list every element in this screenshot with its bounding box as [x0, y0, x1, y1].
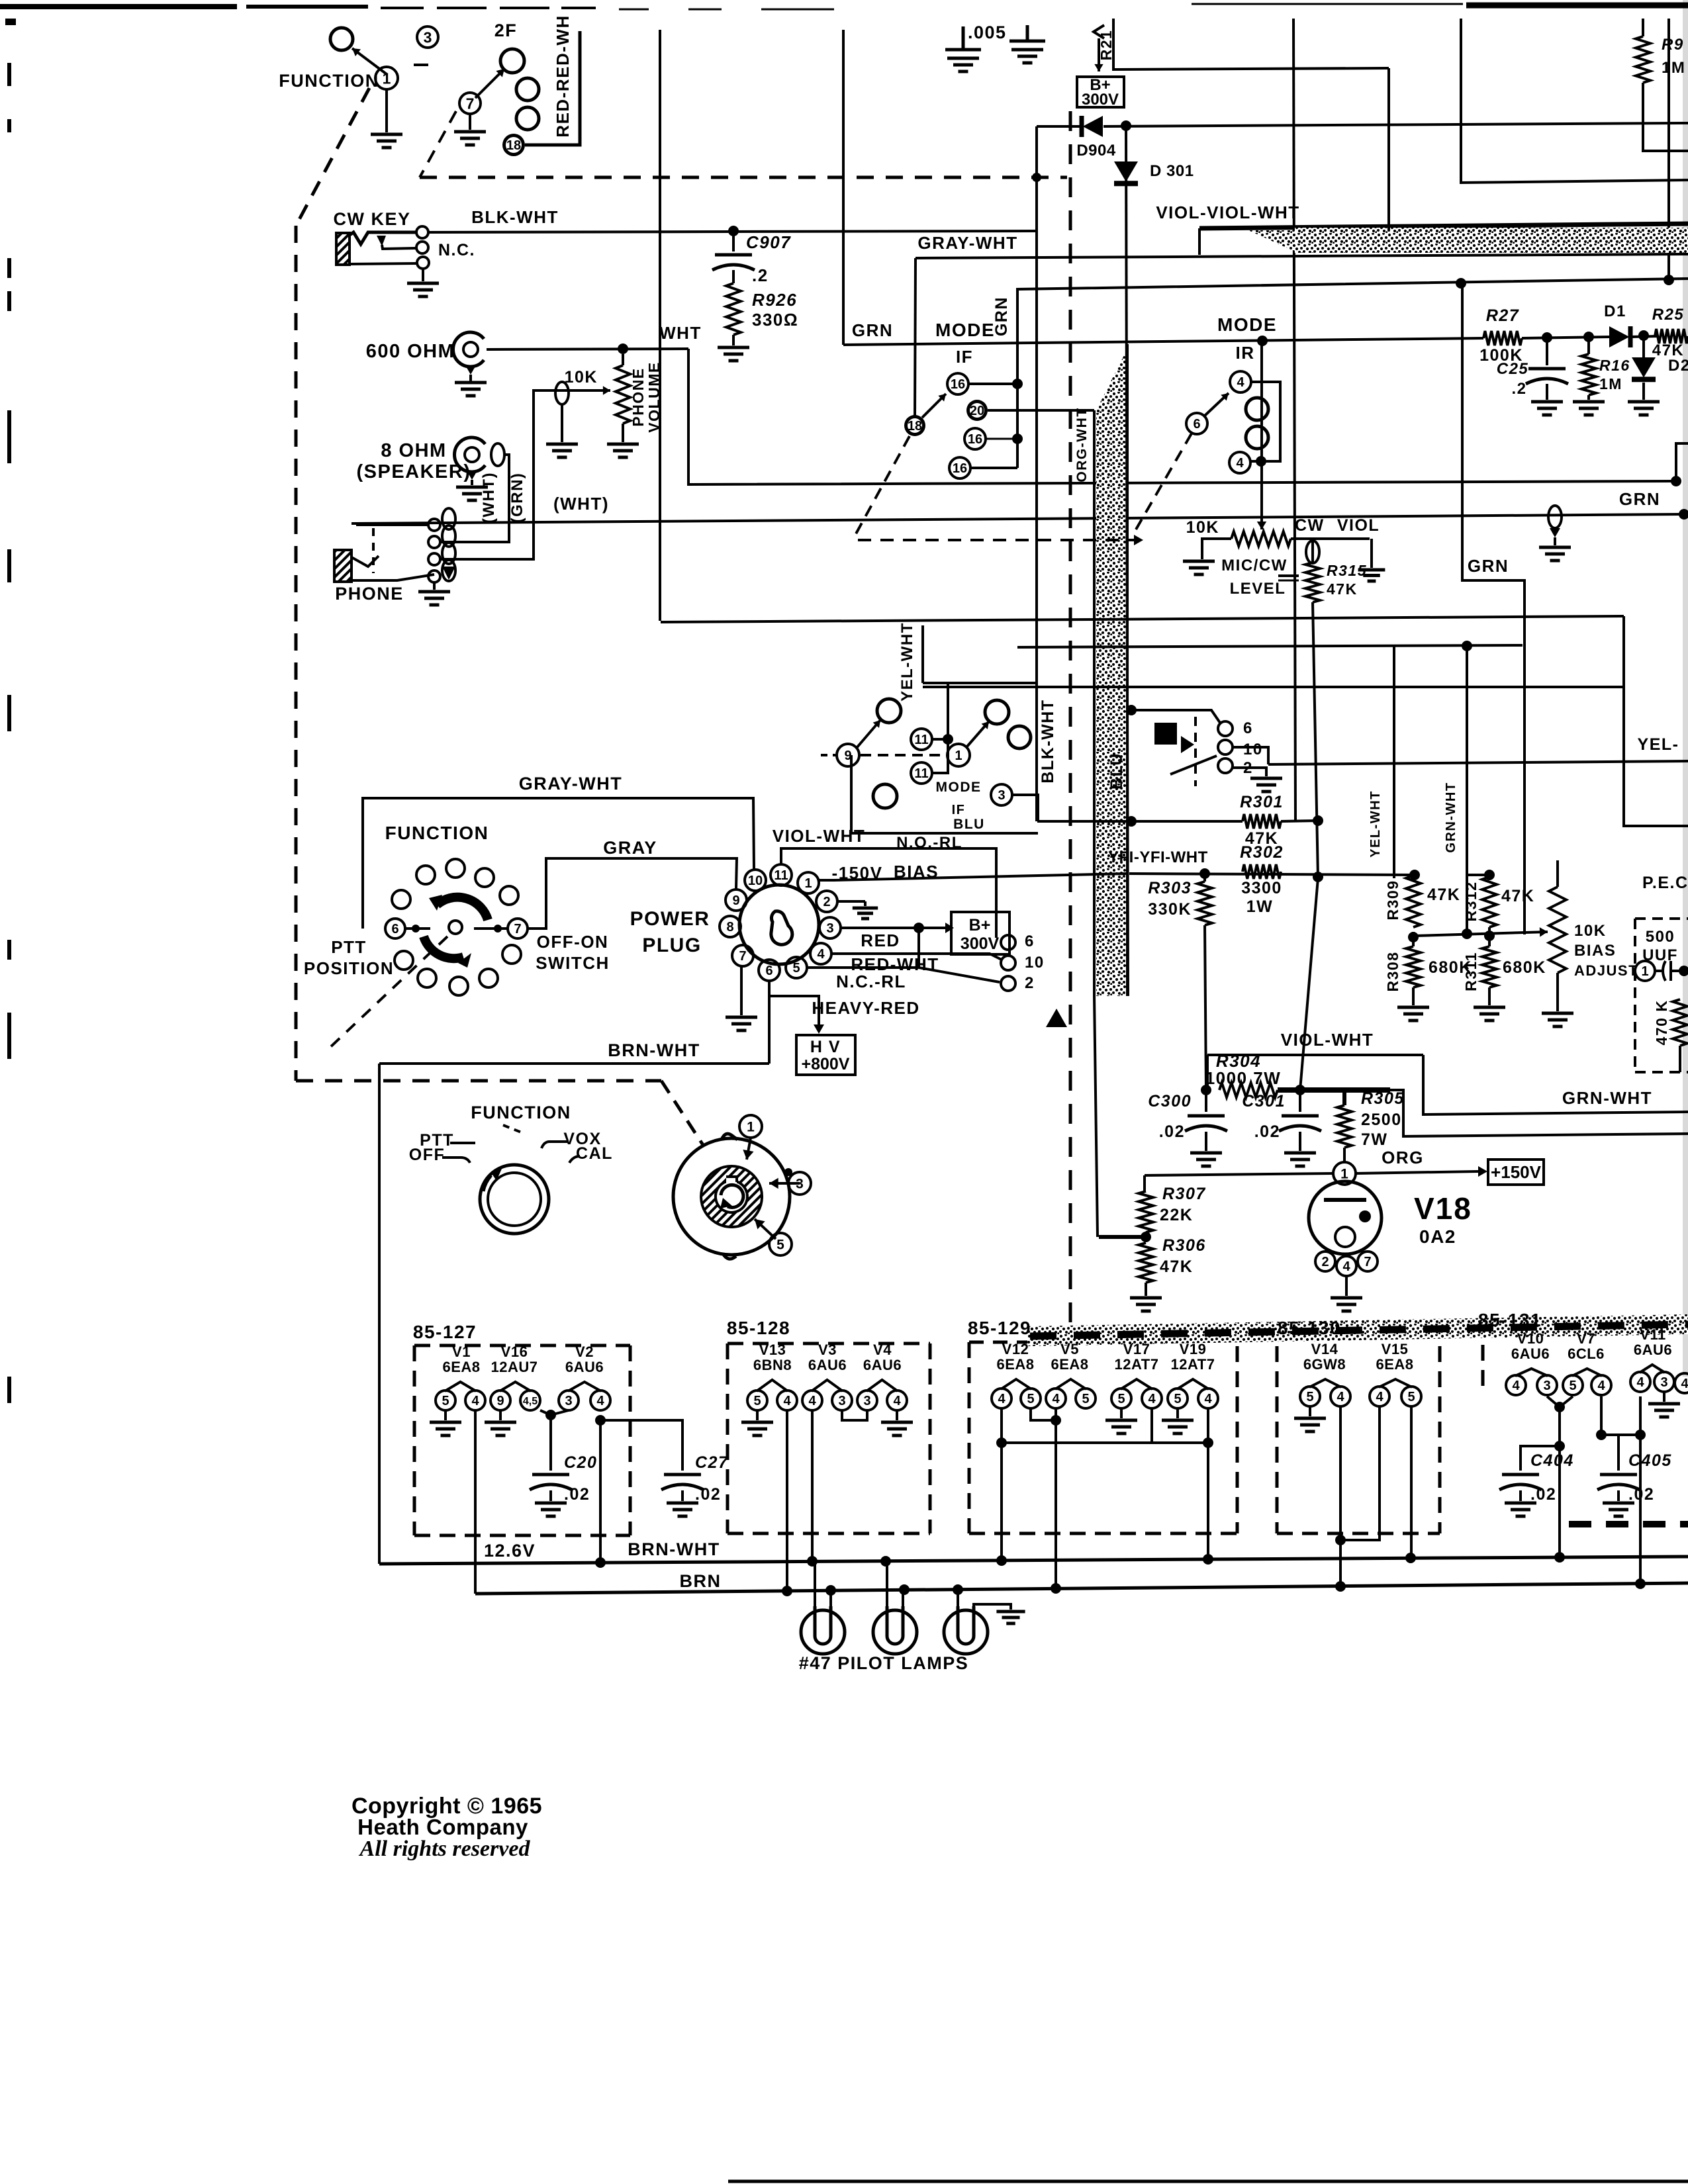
svg-text:N.C.: N.C. — [438, 241, 475, 259]
resistor R308 680K — [1406, 946, 1421, 987]
shaded band bottom — [1027, 1314, 1688, 1346]
dashed callout — [854, 436, 910, 537]
resistor R302 3300 1W — [1243, 864, 1281, 879]
wire — [732, 335, 735, 345]
wire — [350, 263, 416, 264]
feedthrough — [555, 382, 569, 404]
svg-text:47K: 47K — [1327, 580, 1358, 598]
contact 4b — [1229, 452, 1250, 473]
svg-text:16: 16 — [951, 377, 965, 392]
socket pin 4 V3 — [802, 1390, 822, 1410]
ground — [1573, 400, 1605, 404]
svg-text:6EA8: 6EA8 — [1051, 1356, 1088, 1373]
svg-text:4: 4 — [1342, 1259, 1350, 1274]
wire — [1206, 1055, 1209, 1090]
svg-text:4: 4 — [808, 1394, 816, 1408]
wire — [1233, 768, 1266, 776]
svg-text:12AT7: 12AT7 — [1115, 1356, 1159, 1373]
svg-text:BRN-WHT: BRN-WHT — [628, 1539, 720, 1559]
svg-text:V14: V14 — [1311, 1341, 1338, 1357]
resistor R16 1M — [1587, 337, 1590, 354]
svg-text:(GRN): (GRN) — [508, 473, 526, 523]
capacitor C20 — [549, 1415, 552, 1471]
ground — [1183, 560, 1215, 563]
svg-text:YEL-: YEL- — [1638, 735, 1679, 754]
wire — [968, 383, 1017, 385]
capacitor C404 — [1502, 1473, 1539, 1477]
svg-text:5: 5 — [1027, 1392, 1034, 1406]
dashed boundary vertical — [295, 226, 298, 1081]
svg-text:RED: RED — [861, 931, 900, 950]
dashed rail — [1069, 111, 1072, 1328]
svg-text:FUNCTION: FUNCTION — [279, 71, 379, 91]
svg-text:.2: .2 — [1511, 380, 1526, 398]
ground — [1130, 1297, 1162, 1300]
svg-text:3: 3 — [1543, 1379, 1550, 1393]
wire — [356, 523, 428, 526]
ground — [1309, 1406, 1311, 1416]
svg-text:IR: IR — [1236, 343, 1255, 363]
wire — [1461, 19, 1688, 183]
wire — [1667, 19, 1670, 281]
socket pin 4 V15 — [1370, 1387, 1389, 1406]
svg-text:1M: 1M — [1662, 59, 1685, 77]
svg-text:MODE: MODE — [936, 780, 982, 795]
wire BRN bus — [475, 1583, 1688, 1594]
svg-text:VIOL: VIOL — [1337, 516, 1380, 535]
svg-text:SWITCH: SWITCH — [536, 953, 610, 973]
resistor R312 47K — [1484, 870, 1495, 880]
tube V18 pin 1 — [1333, 1162, 1356, 1185]
svg-text:POSITION: POSITION — [304, 958, 394, 978]
wire — [540, 1410, 569, 1415]
svg-text:16: 16 — [953, 461, 967, 476]
wire — [1035, 126, 1038, 821]
svg-text:R9: R9 — [1662, 36, 1684, 54]
relay contact 10 — [1218, 740, 1233, 754]
wire — [1002, 1441, 1208, 1444]
svg-text:CW: CW — [1295, 516, 1325, 535]
resistor 470K — [1673, 999, 1687, 1046]
wire VIOL — [1291, 537, 1370, 540]
plug pin 3 — [820, 917, 841, 938]
svg-text:Heath Company: Heath Company — [357, 1815, 528, 1839]
wire — [1012, 795, 1038, 821]
svg-text:BRN: BRN — [680, 1571, 722, 1591]
svg-text:P.E.C.: P.E.C. — [1642, 874, 1688, 892]
svg-text:VIOL-VIOL-WHT: VIOL-VIOL-WHT — [1156, 203, 1299, 222]
wire — [433, 582, 436, 590]
wire pin 7 ground — [740, 966, 743, 1015]
socket pin 5 V12 — [1021, 1388, 1041, 1408]
svg-text:47K: 47K — [1652, 341, 1685, 359]
relay contact 2b — [1001, 976, 1015, 991]
svg-text:All rights reserved: All rights reserved — [359, 1837, 531, 1861]
svg-text:4: 4 — [1636, 1375, 1644, 1390]
plug pin 9 — [726, 889, 747, 911]
svg-text:300V: 300V — [1082, 91, 1119, 109]
diode D2 — [1642, 336, 1645, 357]
svg-text:2F: 2F — [494, 21, 518, 40]
svg-text:5: 5 — [792, 961, 800, 976]
potentiometer 10K PHONE VOLUME — [622, 354, 624, 365]
svg-text:4: 4 — [1237, 375, 1244, 390]
socket pin 4 V17 — [1142, 1388, 1162, 1408]
wire — [1037, 820, 1131, 823]
svg-text:VIOL-WHT: VIOL-WHT — [1281, 1030, 1374, 1050]
svg-text:R27: R27 — [1486, 306, 1519, 325]
ground — [896, 1410, 898, 1420]
socket pin 4 V7 — [1591, 1375, 1611, 1395]
svg-text:4: 4 — [893, 1394, 901, 1408]
wire — [1340, 1406, 1380, 1540]
capacitor C405 — [1600, 1473, 1637, 1477]
svg-text:C404: C404 — [1530, 1451, 1574, 1470]
svg-text:4: 4 — [1336, 1390, 1344, 1404]
wire GRN right — [1462, 283, 1524, 934]
svg-text:47K: 47K — [1427, 886, 1460, 904]
svg-text:7: 7 — [739, 949, 746, 964]
feedthrough — [491, 443, 504, 466]
terminal 5 — [769, 1233, 792, 1255]
socket pin 5 V14 — [1300, 1387, 1320, 1406]
wire — [1488, 927, 1491, 946]
svg-text:(SPEAKER): (SPEAKER) — [356, 461, 471, 482]
wire — [1387, 68, 1390, 230]
svg-text:3: 3 — [838, 1394, 845, 1408]
svg-text:4,5: 4,5 — [523, 1396, 538, 1407]
svg-text:3: 3 — [1660, 1375, 1667, 1390]
svg-text:1: 1 — [1641, 964, 1648, 979]
svg-text:GRAY-WHT: GRAY-WHT — [519, 774, 623, 794]
svg-text:R303: R303 — [1148, 879, 1192, 897]
contact 20 — [966, 400, 988, 421]
wire — [915, 254, 1688, 258]
dashed — [821, 754, 835, 756]
ground — [1397, 1006, 1429, 1009]
plug pin 1 — [798, 872, 819, 893]
power label B+ 300V — [1077, 77, 1124, 107]
socket pin 5 V17 — [1111, 1388, 1131, 1408]
dashed callout — [858, 539, 1134, 541]
svg-text:GRN: GRN — [1468, 556, 1509, 576]
wire — [1624, 616, 1688, 826]
svg-text:GRAY-WHT: GRAY-WHT — [917, 233, 1017, 253]
ground — [1284, 1152, 1316, 1155]
wire BRN-WHT bus — [379, 1557, 1688, 1564]
wire — [842, 30, 845, 345]
svg-text:#47 PILOT LAMPS: #47 PILOT LAMPS — [799, 1653, 969, 1673]
svg-text:12AU7: 12AU7 — [491, 1359, 538, 1375]
contact N.O. — [416, 226, 428, 238]
ground — [853, 907, 878, 910]
resistor R21 lead — [1094, 25, 1104, 38]
svg-text:4: 4 — [1148, 1392, 1156, 1406]
socket pin 4 V11 — [1630, 1372, 1650, 1392]
relay contact 2 — [1218, 758, 1233, 773]
capacitor C907 — [715, 253, 752, 257]
contact 1 — [947, 744, 970, 766]
wire — [1521, 1446, 1560, 1471]
wire — [786, 1410, 788, 1592]
wire — [1103, 123, 1688, 126]
svg-text:12AT7: 12AT7 — [1171, 1356, 1215, 1373]
wire — [599, 1420, 602, 1565]
svg-text:FUNCTION: FUNCTION — [471, 1103, 571, 1122]
wire — [659, 30, 661, 621]
svg-text:C907: C907 — [746, 232, 791, 252]
dashed box 85-129 top — [969, 1341, 1027, 1344]
wire — [1233, 747, 1268, 764]
svg-text:R16: R16 — [1599, 357, 1630, 374]
tube V18 0A2 — [1309, 1181, 1382, 1254]
svg-text:MIC/CW: MIC/CW — [1221, 557, 1288, 574]
pilot lamp 1 — [801, 1610, 845, 1654]
svg-text:RED-RED-WH: RED-RED-WH — [553, 15, 573, 137]
socket pin 3 V11 — [1654, 1372, 1674, 1392]
svg-text:5: 5 — [1306, 1390, 1313, 1404]
ground — [1474, 1006, 1505, 1009]
wire — [1639, 1396, 1642, 1583]
wire — [600, 1420, 682, 1471]
contact 7 — [508, 919, 528, 938]
wire — [811, 1410, 814, 1564]
svg-text:18: 18 — [908, 419, 922, 433]
ground — [535, 1502, 567, 1505]
svg-text:4: 4 — [1681, 1377, 1688, 1391]
svg-text:4: 4 — [1376, 1390, 1383, 1404]
svg-text:9: 9 — [844, 749, 851, 763]
plug pin 6 — [759, 960, 780, 981]
jack PHONE — [334, 550, 352, 582]
svg-text:5: 5 — [442, 1394, 449, 1408]
svg-text:D2: D2 — [1668, 357, 1688, 375]
tube V18 pin 2 — [1315, 1251, 1335, 1271]
wire — [1554, 537, 1556, 545]
wire — [923, 686, 1624, 688]
svg-text:10: 10 — [1243, 741, 1263, 758]
dashed boundary horizontal top — [420, 176, 1067, 179]
svg-text:LEVEL: LEVEL — [1230, 580, 1286, 598]
wire -150V BIAS from pin 1 — [818, 874, 1127, 880]
socket pin 9 V16 — [491, 1390, 510, 1410]
rotary switch MODE IF 2 — [923, 682, 1038, 684]
svg-text:POWER: POWER — [630, 908, 710, 930]
svg-text:1000 7W: 1000 7W — [1205, 1068, 1282, 1088]
contact 11a — [911, 729, 932, 750]
svg-text:V12: V12 — [1002, 1341, 1029, 1357]
relay coil — [1154, 723, 1177, 745]
svg-text:HEAVY-RED: HEAVY-RED — [812, 998, 919, 1018]
wire — [1145, 1173, 1333, 1175]
resistor R27 100K — [1483, 331, 1522, 345]
svg-text:3: 3 — [424, 28, 432, 46]
svg-text:CAL: CAL — [576, 1144, 613, 1163]
svg-text:2: 2 — [1025, 974, 1035, 992]
ground — [1331, 1297, 1362, 1300]
svg-text:6: 6 — [765, 964, 773, 978]
terminal 1 — [1635, 961, 1655, 981]
svg-text:PHONE: PHONE — [335, 584, 404, 604]
svg-text:IF: IF — [956, 347, 973, 367]
wire — [1260, 341, 1263, 510]
plug pin 5 — [786, 957, 807, 978]
socket pin 5 V7 — [1563, 1375, 1583, 1395]
resistor R309 47K — [1409, 870, 1420, 880]
wire HEAVY-RED from pin 6 — [768, 981, 771, 1064]
contact 11b — [911, 762, 932, 784]
svg-text:4: 4 — [998, 1392, 1006, 1406]
svg-text:.02: .02 — [1254, 1122, 1280, 1141]
svg-text:6AU6: 6AU6 — [808, 1357, 847, 1373]
wire — [1676, 443, 1688, 481]
svg-text:500: 500 — [1646, 928, 1675, 946]
svg-text:5: 5 — [1569, 1379, 1576, 1393]
ground — [1539, 546, 1571, 549]
pilot lamp 2 — [873, 1610, 917, 1654]
svg-text:85-131: 85-131 — [1478, 1310, 1542, 1330]
shaded cable run ORG-WHT — [1096, 349, 1127, 410]
svg-text:300V: 300V — [961, 934, 1000, 953]
svg-text:1: 1 — [955, 749, 962, 763]
svg-text:330Ω: 330Ω — [752, 310, 798, 330]
plug pin 4 — [810, 943, 831, 964]
svg-text:6AU6: 6AU6 — [565, 1359, 604, 1375]
terminal 3 — [417, 26, 438, 48]
svg-text:V10: V10 — [1517, 1330, 1544, 1347]
capacitor C300 — [1205, 1090, 1207, 1112]
wire — [1207, 1408, 1209, 1559]
contact circles — [1246, 398, 1268, 420]
svg-text:C20: C20 — [564, 1453, 597, 1472]
terminal circles — [516, 78, 539, 101]
wire bracket — [1250, 382, 1280, 461]
ground — [1603, 1502, 1634, 1505]
contact 16b — [964, 428, 986, 449]
svg-text:PHONE: PHONE — [630, 367, 647, 426]
svg-text:BLK-WHT: BLK-WHT — [471, 207, 559, 227]
svg-text:BRN-WHT: BRN-WHT — [608, 1040, 700, 1060]
wire YEL-WHT stub — [921, 625, 924, 683]
relay contact 6b — [1001, 935, 1015, 950]
svg-text:6GW8: 6GW8 — [1303, 1356, 1346, 1373]
svg-text:9: 9 — [732, 893, 739, 908]
ground — [1505, 1502, 1536, 1505]
wire — [1150, 1408, 1153, 1443]
svg-text:R312: R312 — [1462, 882, 1479, 922]
wire — [1126, 126, 1128, 996]
wire — [1131, 820, 1243, 823]
svg-text:IF: IF — [952, 803, 966, 817]
wire GRAY-WHT to contact 18 — [915, 258, 915, 416]
svg-text:10K: 10K — [1574, 922, 1607, 940]
wire YEL-WHT — [1393, 647, 1395, 878]
wire — [1205, 925, 1206, 1090]
scanner edge shading — [1683, 0, 1688, 1377]
socket pin 5 V13 — [747, 1390, 767, 1410]
wire — [1099, 1235, 1146, 1239]
ground — [407, 282, 439, 285]
svg-text:V3: V3 — [818, 1342, 837, 1358]
ground — [454, 130, 486, 134]
ground — [499, 1410, 502, 1420]
svg-text:(WHT): (WHT) — [480, 472, 498, 523]
svg-text:6CL6: 6CL6 — [1568, 1345, 1605, 1362]
plug pin 11 — [771, 864, 792, 886]
svg-text:8: 8 — [726, 920, 733, 934]
svg-text:C27: C27 — [695, 1453, 728, 1472]
wire — [1558, 1407, 1561, 1559]
socket pin 4 V4 — [887, 1390, 907, 1410]
wire VIOL-WHT from pin 11 — [781, 848, 996, 938]
ground — [1250, 777, 1282, 780]
rotary switch FUNCTION (top fragment) — [330, 28, 353, 50]
contact 9 — [837, 744, 859, 766]
svg-text:11: 11 — [774, 868, 788, 883]
svg-text:C405: C405 — [1628, 1451, 1672, 1470]
svg-text:7W: 7W — [1361, 1130, 1388, 1149]
svg-text:.02: .02 — [1530, 1485, 1556, 1504]
capacitor C301 — [1299, 1090, 1301, 1112]
svg-text:18: 18 — [506, 138, 521, 153]
contact circles — [428, 519, 440, 531]
power label HV +800V — [796, 1035, 855, 1075]
svg-text:680K: 680K — [1503, 958, 1546, 977]
wire MODE bus — [843, 338, 1483, 345]
svg-text:4: 4 — [817, 947, 825, 962]
svg-text:85-129: 85-129 — [968, 1318, 1031, 1338]
socket pin 4 V13 — [777, 1390, 797, 1410]
svg-text:GRN: GRN — [852, 320, 893, 340]
svg-text:6: 6 — [1243, 719, 1253, 737]
dashed callout — [1136, 433, 1192, 529]
resistor R315 47K — [1311, 539, 1314, 563]
svg-text:4: 4 — [596, 1394, 604, 1408]
svg-text:6: 6 — [1193, 417, 1200, 432]
svg-text:BIAS: BIAS — [1574, 942, 1616, 960]
svg-text:(WHT): (WHT) — [553, 494, 609, 514]
wire — [1601, 1433, 1640, 1436]
ground — [1663, 1392, 1665, 1402]
wire — [932, 739, 948, 773]
svg-text:330K: 330K — [1148, 900, 1192, 919]
ground — [756, 1410, 759, 1420]
svg-text:0A2: 0A2 — [1419, 1226, 1456, 1247]
wire — [1000, 1408, 1003, 1563]
ground — [947, 57, 979, 60]
svg-text:V17: V17 — [1123, 1341, 1150, 1357]
ground — [418, 590, 450, 594]
svg-text:R301: R301 — [1240, 793, 1284, 811]
resistor R304 1000 7W — [1219, 1083, 1278, 1097]
svg-text:.2: .2 — [752, 265, 769, 285]
wire — [1031, 1408, 1056, 1420]
tube V18 pin 7 — [1358, 1251, 1378, 1271]
svg-text:V2: V2 — [575, 1343, 594, 1360]
svg-text:GRN: GRN — [992, 296, 1011, 336]
svg-text:1: 1 — [804, 876, 812, 891]
svg-text:10: 10 — [748, 874, 763, 888]
svg-text:R308: R308 — [1384, 952, 1401, 992]
svg-text:C300: C300 — [1148, 1092, 1192, 1111]
resistor R9 1M — [1642, 19, 1644, 36]
wire wiper to phone jack — [440, 390, 569, 559]
svg-text:YEL-WHT: YEL-WHT — [1368, 790, 1383, 858]
wire — [1390, 1090, 1688, 1136]
dashed bottom 85-131 — [1569, 1521, 1688, 1527]
svg-text:10: 10 — [1025, 954, 1045, 972]
svg-text:MODE: MODE — [1217, 314, 1277, 335]
